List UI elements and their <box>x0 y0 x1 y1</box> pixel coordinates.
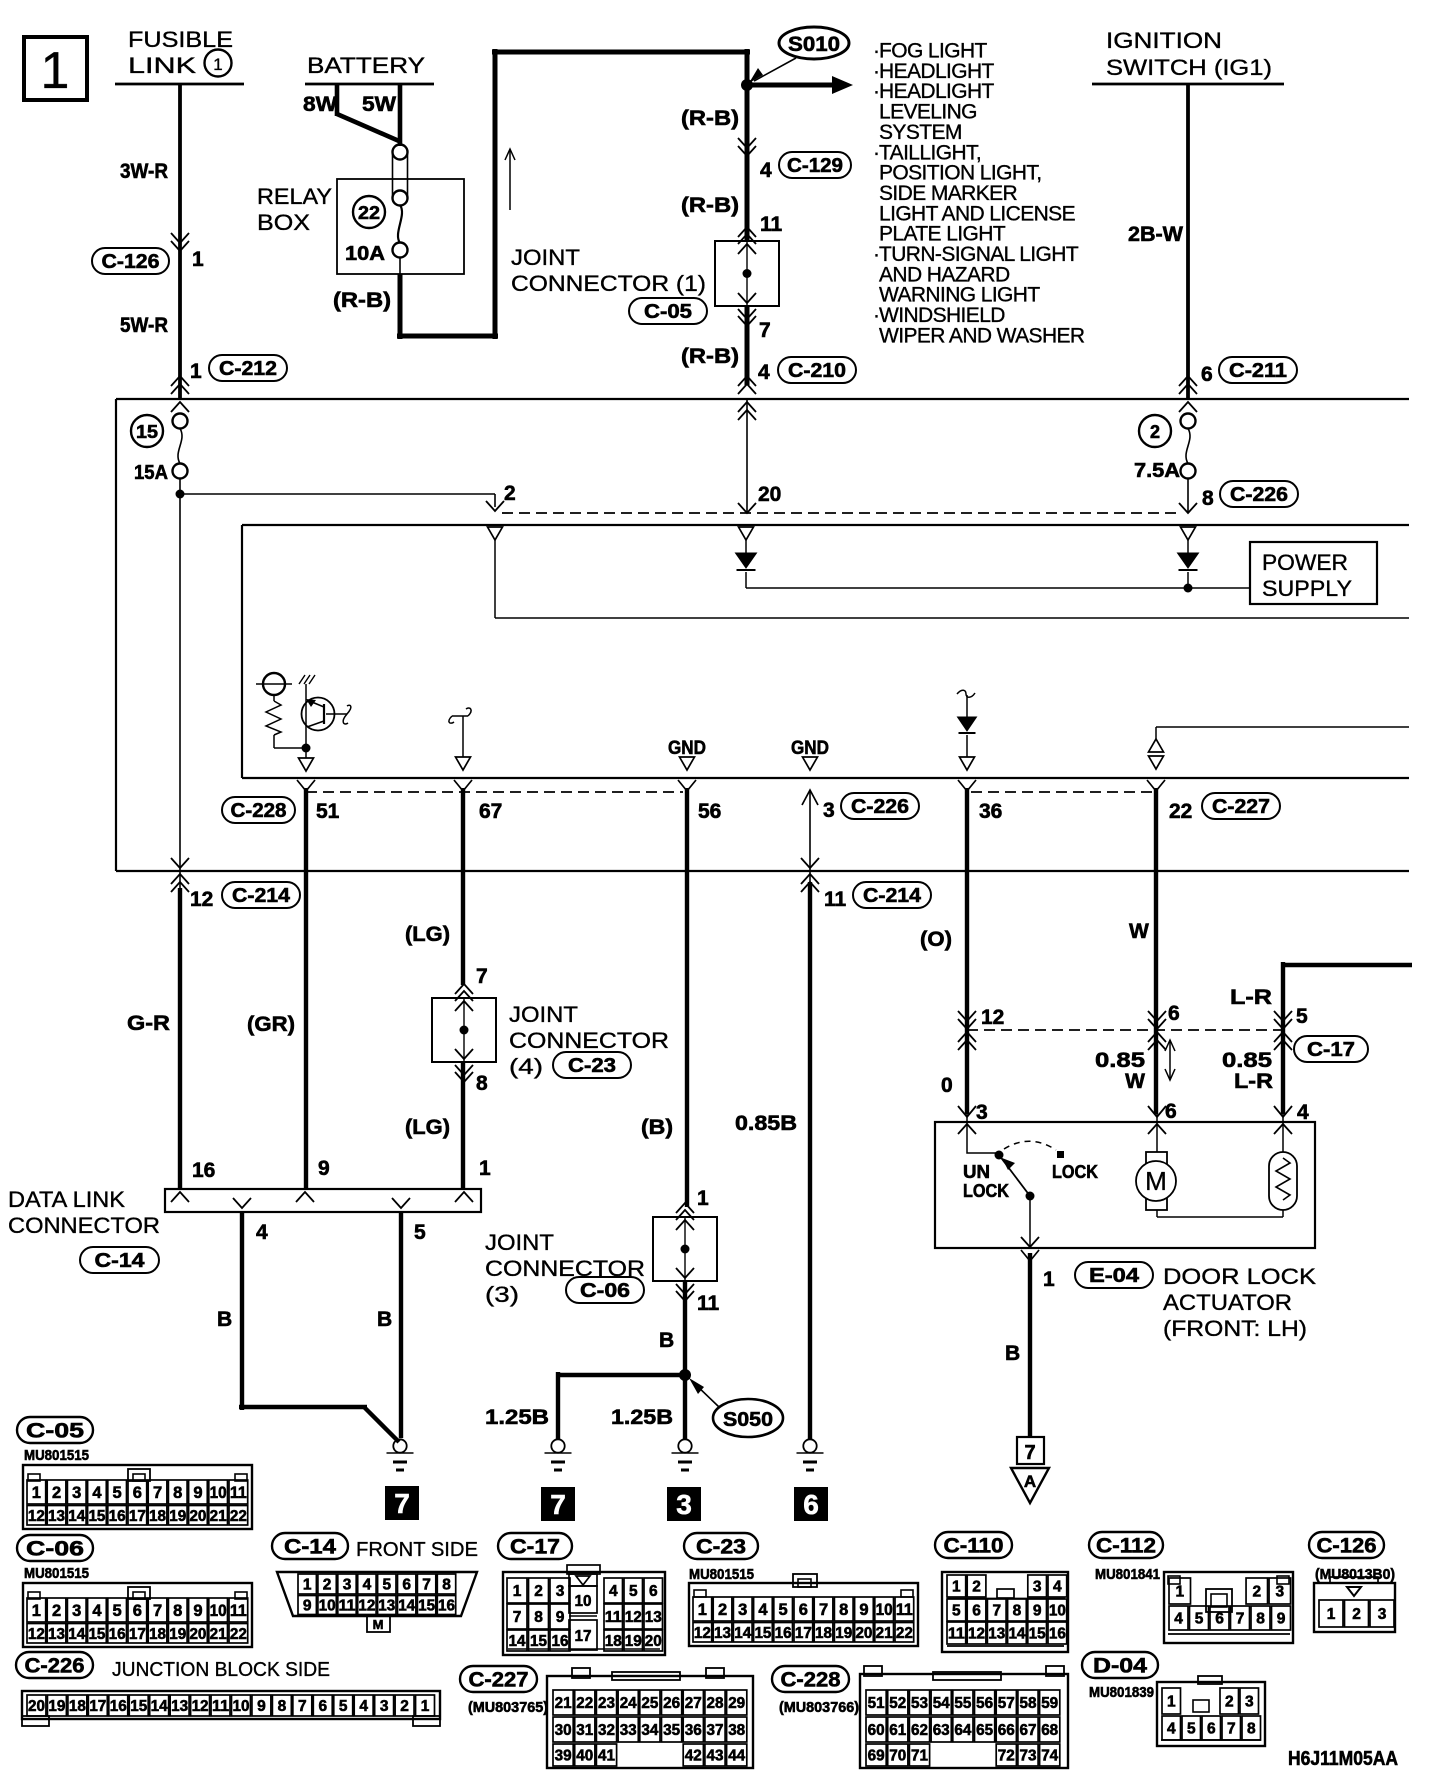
svg-text:18: 18 <box>149 1508 166 1525</box>
svg-text:63: 63 <box>933 1722 950 1739</box>
svg-text:56: 56 <box>976 1695 993 1712</box>
svg-text:C-05: C-05 <box>644 301 692 323</box>
svg-text:11: 11 <box>896 1601 913 1619</box>
svg-text:2: 2 <box>1352 1606 1361 1623</box>
svg-text:C-211: C-211 <box>1229 360 1287 382</box>
svg-text:13: 13 <box>645 1609 662 1626</box>
svg-text:7: 7 <box>153 1484 162 1502</box>
svg-text:SWITCH (IG1): SWITCH (IG1) <box>1106 55 1272 80</box>
svg-text:8: 8 <box>534 1609 543 1626</box>
svg-text:19: 19 <box>169 1508 186 1525</box>
svg-text:10: 10 <box>319 1598 336 1615</box>
svg-text:23: 23 <box>598 1695 615 1712</box>
svg-text:44: 44 <box>728 1748 745 1765</box>
svg-text:56: 56 <box>698 800 721 823</box>
svg-text:C-129: C-129 <box>787 155 843 177</box>
svg-text:C-227: C-227 <box>469 1669 529 1692</box>
svg-text:51: 51 <box>316 800 340 823</box>
svg-text:1: 1 <box>1327 1606 1336 1623</box>
svg-text:14: 14 <box>398 1598 415 1615</box>
svg-text:3: 3 <box>823 799 835 822</box>
svg-text:67: 67 <box>1020 1722 1037 1739</box>
svg-text:4: 4 <box>758 1601 768 1619</box>
svg-text:C-226: C-226 <box>25 1655 85 1678</box>
svg-text:MU801515: MU801515 <box>689 1566 754 1583</box>
svg-text:30: 30 <box>555 1722 572 1739</box>
svg-text:11: 11 <box>948 1626 965 1643</box>
svg-text:(FRONT: LH): (FRONT: LH) <box>1163 1316 1307 1341</box>
svg-text:28: 28 <box>707 1695 724 1712</box>
svg-text:6: 6 <box>402 1577 411 1594</box>
svg-text:G-R: G-R <box>127 1012 170 1035</box>
svg-text:7: 7 <box>298 1698 307 1715</box>
svg-text:C-05: C-05 <box>26 1420 84 1443</box>
svg-text:12: 12 <box>190 888 213 911</box>
svg-text:2: 2 <box>1252 1584 1261 1601</box>
svg-text:6: 6 <box>318 1698 327 1715</box>
svg-text:E-04: E-04 <box>1089 1265 1140 1287</box>
svg-text:B: B <box>1005 1342 1020 1365</box>
svg-text:3: 3 <box>1275 1584 1284 1601</box>
svg-text:17: 17 <box>129 1508 146 1525</box>
svg-text:1: 1 <box>32 1484 41 1502</box>
svg-text:C-06: C-06 <box>26 1538 84 1561</box>
svg-text:C-14: C-14 <box>95 1250 146 1272</box>
svg-text:14: 14 <box>68 1626 85 1643</box>
svg-text:20: 20 <box>28 1698 45 1715</box>
svg-text:CONNECTOR: CONNECTOR <box>509 1028 669 1053</box>
svg-text:0: 0 <box>941 1074 953 1097</box>
svg-text:3: 3 <box>1033 1579 1042 1596</box>
svg-text:POWER: POWER <box>1262 550 1348 575</box>
svg-text:W: W <box>1125 1070 1145 1093</box>
svg-text:16: 16 <box>775 1625 792 1642</box>
svg-text:22: 22 <box>230 1508 247 1525</box>
svg-text:7: 7 <box>513 1609 522 1626</box>
svg-text:38: 38 <box>728 1722 745 1739</box>
svg-text:10: 10 <box>232 1698 249 1715</box>
svg-text:2: 2 <box>504 482 516 505</box>
svg-text:73: 73 <box>1020 1748 1037 1765</box>
svg-text:0.85: 0.85 <box>1095 1049 1145 1072</box>
svg-text:4: 4 <box>359 1698 368 1715</box>
svg-text:62: 62 <box>911 1722 928 1739</box>
svg-text:20: 20 <box>855 1625 872 1642</box>
svg-text:19: 19 <box>169 1626 186 1643</box>
svg-text:24: 24 <box>620 1695 637 1712</box>
svg-text:21: 21 <box>210 1626 227 1643</box>
svg-text:9: 9 <box>193 1484 202 1502</box>
svg-text:(LG): (LG) <box>405 1116 450 1139</box>
svg-text:22: 22 <box>576 1695 593 1712</box>
svg-text:18: 18 <box>149 1626 166 1643</box>
svg-text:9: 9 <box>318 1157 330 1180</box>
svg-text:5: 5 <box>339 1698 348 1715</box>
svg-text:14: 14 <box>151 1698 168 1715</box>
svg-text:C-210: C-210 <box>788 360 846 382</box>
svg-text:LOCK: LOCK <box>963 1181 1009 1201</box>
svg-text:C-23: C-23 <box>568 1055 616 1077</box>
svg-text:36: 36 <box>685 1722 702 1739</box>
svg-text:10A: 10A <box>345 243 385 265</box>
svg-text:9: 9 <box>1033 1603 1042 1620</box>
svg-text:1: 1 <box>1043 1268 1055 1291</box>
svg-text:20: 20 <box>189 1626 206 1643</box>
svg-text:12: 12 <box>968 1626 985 1643</box>
svg-text:C-214: C-214 <box>863 885 922 907</box>
svg-text:9: 9 <box>303 1598 312 1615</box>
svg-text:RELAY: RELAY <box>257 184 332 209</box>
svg-text:B: B <box>377 1308 392 1331</box>
svg-text:9: 9 <box>859 1601 868 1619</box>
svg-text:2: 2 <box>52 1602 61 1620</box>
svg-text:1.25B: 1.25B <box>611 1406 673 1429</box>
svg-text:19: 19 <box>835 1625 852 1642</box>
svg-text:11: 11 <box>212 1698 229 1715</box>
svg-text:2: 2 <box>534 1583 543 1600</box>
svg-text:22: 22 <box>1169 800 1192 823</box>
svg-text:8: 8 <box>173 1484 182 1502</box>
svg-text:6: 6 <box>1168 1002 1180 1025</box>
svg-text:22: 22 <box>230 1626 247 1643</box>
svg-text:L-R: L-R <box>1230 986 1272 1009</box>
svg-text:GND: GND <box>668 738 706 759</box>
svg-text:JOINT: JOINT <box>509 1002 578 1027</box>
svg-text:54: 54 <box>933 1695 950 1712</box>
svg-text:2B-W: 2B-W <box>1128 223 1183 246</box>
svg-text:16: 16 <box>552 1633 569 1650</box>
svg-text:DOOR LOCK: DOOR LOCK <box>1163 1264 1316 1289</box>
svg-text:33: 33 <box>620 1722 637 1739</box>
svg-text:4: 4 <box>92 1484 102 1502</box>
svg-text:51: 51 <box>868 1695 885 1712</box>
svg-text:FRONT SIDE: FRONT SIDE <box>356 1539 478 1561</box>
svg-text:8: 8 <box>1247 1721 1256 1738</box>
svg-text:21: 21 <box>555 1695 572 1712</box>
svg-text:16: 16 <box>192 1159 215 1182</box>
svg-text:5: 5 <box>952 1603 961 1620</box>
svg-text:14: 14 <box>509 1633 526 1650</box>
svg-text:13: 13 <box>48 1626 65 1643</box>
svg-text:21: 21 <box>210 1508 227 1525</box>
svg-text:14: 14 <box>1008 1626 1025 1643</box>
svg-text:2: 2 <box>1150 422 1160 442</box>
svg-text:8: 8 <box>476 1072 488 1095</box>
svg-text:1: 1 <box>698 1601 707 1619</box>
svg-text:1: 1 <box>697 1187 709 1210</box>
svg-text:C-214: C-214 <box>232 885 291 907</box>
svg-text:A: A <box>1024 1472 1036 1491</box>
svg-text:(R-B): (R-B) <box>681 345 739 368</box>
svg-text:7: 7 <box>1024 1442 1035 1464</box>
svg-text:7: 7 <box>476 965 488 988</box>
svg-text:40: 40 <box>576 1748 593 1765</box>
svg-text:1: 1 <box>192 248 204 271</box>
svg-text:16: 16 <box>110 1698 127 1715</box>
svg-text:9: 9 <box>1277 1611 1286 1628</box>
svg-text:22: 22 <box>358 203 380 223</box>
svg-text:2: 2 <box>718 1601 727 1619</box>
svg-text:70: 70 <box>889 1748 906 1765</box>
svg-text:10: 10 <box>210 1602 227 1620</box>
svg-text:C-226: C-226 <box>1230 484 1288 506</box>
svg-text:3: 3 <box>1245 1694 1254 1711</box>
svg-text:UN: UN <box>963 1162 990 1182</box>
svg-text:37: 37 <box>707 1722 724 1739</box>
svg-text:18: 18 <box>69 1698 86 1715</box>
svg-text:20: 20 <box>645 1633 662 1650</box>
svg-text:1: 1 <box>479 1157 491 1180</box>
svg-text:5: 5 <box>779 1601 788 1619</box>
svg-text:B: B <box>659 1329 674 1352</box>
svg-text:64: 64 <box>954 1722 971 1739</box>
svg-text:22: 22 <box>896 1625 913 1642</box>
svg-text:5: 5 <box>1296 1005 1308 1028</box>
svg-text:8: 8 <box>278 1698 287 1715</box>
svg-text:68: 68 <box>1041 1722 1058 1739</box>
svg-text:LOCK: LOCK <box>1052 1162 1098 1182</box>
svg-text:7: 7 <box>759 319 771 342</box>
svg-text:3: 3 <box>72 1602 81 1620</box>
svg-text:4: 4 <box>1297 1101 1309 1124</box>
svg-text:1.25B: 1.25B <box>485 1406 549 1429</box>
svg-text:6: 6 <box>649 1583 658 1600</box>
svg-text:3: 3 <box>1378 1606 1387 1623</box>
svg-text:16: 16 <box>438 1598 455 1615</box>
svg-text:14: 14 <box>68 1508 85 1525</box>
svg-text:59: 59 <box>1041 1695 1058 1712</box>
svg-text:C-126: C-126 <box>1317 1535 1377 1558</box>
svg-text:43: 43 <box>707 1748 724 1765</box>
svg-text:32: 32 <box>598 1722 615 1739</box>
svg-text:15: 15 <box>530 1633 547 1650</box>
svg-text:M: M <box>1145 1166 1167 1196</box>
svg-text:1: 1 <box>421 1698 430 1715</box>
svg-text:1: 1 <box>1167 1694 1176 1711</box>
svg-text:4: 4 <box>256 1221 268 1244</box>
svg-text:C-17: C-17 <box>510 1536 560 1559</box>
svg-text:11: 11 <box>824 888 847 911</box>
svg-text:L-R: L-R <box>1234 1070 1273 1093</box>
svg-text:8: 8 <box>839 1601 848 1619</box>
svg-text:2: 2 <box>52 1484 61 1502</box>
svg-text:4: 4 <box>760 159 772 182</box>
svg-text:16: 16 <box>109 1508 126 1525</box>
svg-text:1: 1 <box>190 360 202 383</box>
svg-text:11: 11 <box>760 213 783 236</box>
svg-text:72: 72 <box>998 1748 1015 1765</box>
svg-text:7: 7 <box>394 1488 410 1519</box>
svg-text:JUNCTION BLOCK SIDE: JUNCTION BLOCK SIDE <box>112 1659 330 1681</box>
svg-text:C-212: C-212 <box>219 358 277 380</box>
svg-text:6: 6 <box>1207 1721 1216 1738</box>
svg-text:10: 10 <box>210 1484 227 1502</box>
svg-text:20: 20 <box>758 483 781 506</box>
svg-text:4: 4 <box>1174 1611 1183 1628</box>
svg-text:IGNITION: IGNITION <box>1106 28 1222 53</box>
svg-text:69: 69 <box>868 1748 885 1765</box>
svg-text:13: 13 <box>714 1625 731 1642</box>
svg-text:7: 7 <box>153 1602 162 1620</box>
svg-text:10: 10 <box>876 1601 893 1619</box>
svg-text:74: 74 <box>1041 1748 1058 1765</box>
svg-text:MU801841: MU801841 <box>1095 1566 1160 1583</box>
svg-text:15: 15 <box>136 422 158 442</box>
svg-text:8: 8 <box>1013 1603 1022 1620</box>
svg-text:2: 2 <box>972 1579 981 1596</box>
svg-text:15A: 15A <box>134 462 168 484</box>
svg-text:0.85: 0.85 <box>1222 1049 1272 1072</box>
svg-text:GND: GND <box>791 738 829 759</box>
svg-text:BOX: BOX <box>257 210 310 235</box>
svg-text:1: 1 <box>513 1583 522 1600</box>
svg-text:3: 3 <box>676 1489 692 1520</box>
svg-text:9: 9 <box>193 1602 202 1620</box>
svg-text:BATTERY: BATTERY <box>307 53 425 78</box>
svg-text:11: 11 <box>339 1598 356 1615</box>
svg-text:10: 10 <box>575 1593 592 1610</box>
svg-text:13: 13 <box>988 1626 1005 1643</box>
svg-text:(LG): (LG) <box>405 923 450 946</box>
svg-text:13: 13 <box>171 1698 188 1715</box>
svg-text:15: 15 <box>754 1625 771 1642</box>
svg-text:(4): (4) <box>509 1054 543 1079</box>
svg-text:7: 7 <box>550 1489 566 1520</box>
svg-text:34: 34 <box>641 1722 658 1739</box>
svg-text:4: 4 <box>1167 1721 1176 1738</box>
svg-text:5: 5 <box>1195 1611 1204 1628</box>
svg-text:(B): (B) <box>641 1116 673 1139</box>
svg-text:(3): (3) <box>485 1282 519 1307</box>
svg-text:42: 42 <box>685 1748 702 1765</box>
svg-text:1: 1 <box>1175 1584 1184 1601</box>
svg-text:65: 65 <box>976 1722 993 1739</box>
svg-text:7.5A: 7.5A <box>1134 460 1180 482</box>
svg-text:7: 7 <box>819 1601 828 1619</box>
svg-text:JOINT: JOINT <box>485 1230 554 1255</box>
svg-text:C-228: C-228 <box>781 1669 841 1692</box>
svg-text:21: 21 <box>876 1625 893 1642</box>
svg-text:5: 5 <box>1187 1721 1196 1738</box>
svg-text:6: 6 <box>972 1603 981 1620</box>
svg-text:(MU803766): (MU803766) <box>779 1699 859 1716</box>
svg-text:41: 41 <box>598 1748 615 1765</box>
svg-text:MU801839: MU801839 <box>1089 1684 1154 1701</box>
svg-text:3: 3 <box>343 1577 352 1594</box>
svg-text:C-226: C-226 <box>851 796 909 818</box>
svg-text:ACTUATOR: ACTUATOR <box>1163 1290 1292 1315</box>
svg-text:C-06: C-06 <box>580 1280 630 1302</box>
svg-text:CONNECTOR: CONNECTOR <box>8 1213 160 1238</box>
svg-text:5: 5 <box>113 1484 122 1502</box>
svg-text:15: 15 <box>130 1698 147 1715</box>
svg-text:12: 12 <box>28 1626 45 1643</box>
svg-text:0.85B: 0.85B <box>735 1112 797 1135</box>
svg-text:7: 7 <box>422 1577 431 1594</box>
svg-text:MU801515: MU801515 <box>24 1447 89 1464</box>
svg-text:6: 6 <box>1201 363 1213 386</box>
svg-text:52: 52 <box>889 1695 906 1712</box>
svg-text:13: 13 <box>48 1508 65 1525</box>
svg-text:CONNECTOR (1): CONNECTOR (1) <box>511 271 706 296</box>
svg-text:8: 8 <box>1202 487 1214 510</box>
svg-text:6: 6 <box>1215 1611 1224 1628</box>
svg-text:B: B <box>217 1308 232 1331</box>
svg-text:6: 6 <box>133 1484 142 1502</box>
svg-text:17: 17 <box>575 1628 592 1645</box>
svg-text:(O): (O) <box>920 928 952 951</box>
svg-text:1: 1 <box>213 55 222 74</box>
svg-text:(MU803765): (MU803765) <box>468 1699 548 1716</box>
svg-text:18: 18 <box>605 1633 622 1650</box>
svg-text:15: 15 <box>88 1508 105 1525</box>
svg-text:15: 15 <box>88 1626 105 1643</box>
svg-text:9: 9 <box>257 1698 266 1715</box>
svg-text:6: 6 <box>803 1489 819 1520</box>
svg-text:C-227: C-227 <box>1212 796 1270 818</box>
svg-text:C-228: C-228 <box>231 800 287 822</box>
svg-text:17: 17 <box>129 1626 146 1643</box>
svg-text:6: 6 <box>133 1602 142 1620</box>
svg-text:66: 66 <box>998 1722 1015 1739</box>
svg-text:20: 20 <box>189 1508 206 1525</box>
svg-text:16: 16 <box>109 1626 126 1643</box>
svg-text:8: 8 <box>1256 1611 1265 1628</box>
svg-text:67: 67 <box>479 800 502 823</box>
svg-text:12: 12 <box>192 1698 209 1715</box>
svg-text:12: 12 <box>694 1625 711 1642</box>
svg-text:2: 2 <box>400 1698 409 1715</box>
svg-text:C-126: C-126 <box>102 251 160 273</box>
svg-text:35: 35 <box>663 1722 680 1739</box>
svg-text:5W-R: 5W-R <box>120 314 168 337</box>
svg-text:19: 19 <box>48 1698 65 1715</box>
svg-text:12: 12 <box>625 1609 642 1626</box>
svg-text:31: 31 <box>576 1722 593 1739</box>
svg-text:4: 4 <box>758 361 770 384</box>
svg-text:5: 5 <box>414 1221 426 1244</box>
svg-text:25: 25 <box>641 1695 658 1712</box>
svg-text:C-112: C-112 <box>1096 1535 1156 1558</box>
svg-text:JOINT: JOINT <box>511 245 580 270</box>
svg-text:7: 7 <box>1236 1611 1245 1628</box>
svg-text:1: 1 <box>41 42 70 100</box>
svg-text:4: 4 <box>609 1583 618 1600</box>
svg-text:9: 9 <box>556 1609 565 1626</box>
svg-text:12: 12 <box>358 1598 375 1615</box>
svg-text:5: 5 <box>629 1583 638 1600</box>
svg-text:MU801515: MU801515 <box>24 1565 89 1582</box>
svg-text:15: 15 <box>1029 1626 1046 1643</box>
svg-text:2: 2 <box>1225 1694 1234 1711</box>
svg-text:7: 7 <box>992 1603 1001 1620</box>
svg-text:(R-B): (R-B) <box>681 194 739 217</box>
svg-text:71: 71 <box>911 1748 928 1765</box>
svg-text:C-110: C-110 <box>944 1535 1004 1558</box>
svg-text:(R-B): (R-B) <box>681 107 739 130</box>
svg-text:(GR): (GR) <box>247 1013 295 1036</box>
svg-text:61: 61 <box>889 1722 906 1739</box>
svg-text:LINK: LINK <box>128 53 196 78</box>
svg-text:3: 3 <box>976 1101 988 1124</box>
svg-text:6: 6 <box>799 1601 808 1619</box>
svg-text:4: 4 <box>363 1577 372 1594</box>
svg-text:4: 4 <box>1053 1579 1062 1596</box>
svg-text:10: 10 <box>1049 1603 1066 1620</box>
svg-text:3W-R: 3W-R <box>120 160 168 183</box>
svg-text:DATA LINK: DATA LINK <box>8 1187 125 1212</box>
svg-text:M: M <box>373 1617 384 1632</box>
